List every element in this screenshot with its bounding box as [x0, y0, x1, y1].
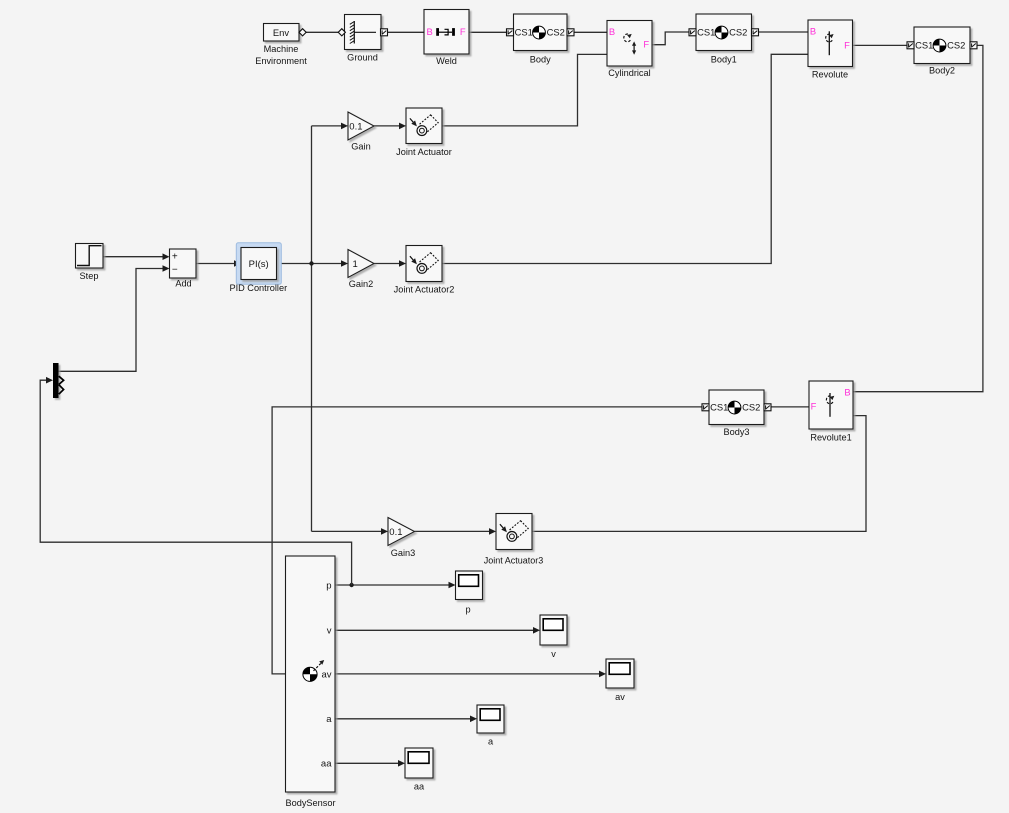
svg-text:Gain3: Gain3 [391, 548, 416, 558]
svg-text:Step: Step [80, 271, 99, 281]
svg-text:av: av [321, 669, 331, 680]
svg-text:Revolute: Revolute [812, 69, 848, 79]
svg-text:CS2: CS2 [729, 27, 747, 38]
svg-text:Gain2: Gain2 [349, 279, 374, 289]
svg-text:p: p [465, 604, 470, 614]
svg-text:Body: Body [530, 54, 551, 64]
svg-text:Ground: Ground [347, 53, 378, 63]
svg-text:0.1: 0.1 [389, 527, 402, 538]
svg-text:Environment: Environment [255, 56, 307, 66]
svg-text:PI(s): PI(s) [249, 259, 269, 270]
svg-text:a: a [326, 714, 332, 725]
svg-text:F: F [460, 26, 466, 37]
svg-text:BodySensor: BodySensor [285, 798, 335, 808]
svg-text:1: 1 [353, 259, 358, 270]
svg-text:Joint Actuator: Joint Actuator [396, 147, 452, 157]
svg-text:Machine: Machine [264, 44, 299, 54]
svg-text:Body1: Body1 [711, 54, 737, 64]
svg-text:B: B [844, 387, 850, 398]
svg-text:B: B [609, 26, 615, 37]
svg-text:Joint Actuator2: Joint Actuator2 [394, 285, 455, 295]
svg-text:CS2: CS2 [547, 27, 565, 38]
svg-text:Cylindrical: Cylindrical [608, 68, 650, 78]
svg-text:Body2: Body2 [929, 65, 955, 75]
svg-text:CS2: CS2 [947, 40, 965, 51]
svg-text:aa: aa [414, 782, 425, 792]
svg-text:CS2: CS2 [742, 402, 760, 413]
svg-text:Env: Env [273, 27, 289, 38]
svg-text:CS1: CS1 [515, 27, 533, 38]
svg-text:v: v [327, 626, 332, 637]
svg-text:CS1: CS1 [697, 27, 715, 38]
svg-text:aa: aa [321, 759, 332, 770]
svg-text:a: a [488, 737, 494, 747]
svg-text:p: p [326, 580, 331, 591]
svg-text:F: F [844, 39, 850, 50]
svg-text:Joint Actuator3: Joint Actuator3 [484, 555, 544, 565]
svg-text:Body3: Body3 [723, 427, 749, 437]
svg-text:Gain: Gain [351, 142, 370, 152]
svg-text:v: v [551, 649, 556, 659]
svg-text:Revolute1: Revolute1 [810, 433, 851, 443]
svg-text:PID Controller: PID Controller [229, 283, 287, 293]
svg-text:B: B [810, 26, 816, 37]
svg-text:Weld: Weld [436, 56, 457, 66]
svg-text:+: + [172, 251, 178, 262]
svg-text:CS1: CS1 [915, 40, 933, 51]
svg-text:0.1: 0.1 [349, 121, 362, 132]
svg-text:Add: Add [175, 279, 191, 289]
svg-text:B: B [426, 26, 432, 37]
svg-text:F: F [811, 401, 817, 412]
svg-text:CS1: CS1 [710, 402, 728, 413]
svg-text:av: av [615, 692, 625, 702]
svg-text:F: F [643, 39, 649, 50]
svg-text:−: − [172, 264, 178, 275]
